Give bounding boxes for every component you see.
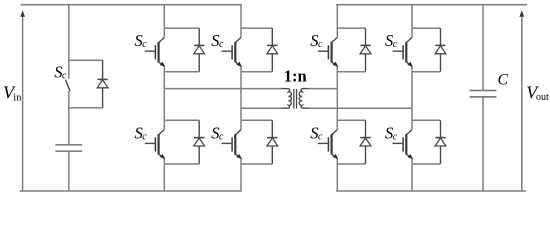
wire: diode loop bottom branch of S4 (input bridge lower-right) — [241, 163, 272, 165]
wire: leg R1 middle: emitter to lower IGBT — [336, 66, 338, 130]
wire: diode loop bottom branch of S6 (output bridge upper-right) — [412, 71, 441, 73]
wire: leg R2 lower: emitter to bottom rail — [411, 158, 413, 191]
wire: switch to input capacitor — [68, 91, 70, 145]
IGBT switch S1 (input bridge upper-left) — [145, 37, 165, 66]
transformer core — [294, 89, 297, 109]
wire: leg R1 upper: top rail to IGBT collector — [336, 5, 338, 38]
diode of S6 (output bridge upper-right) — [435, 28, 446, 72]
wire: primary top lead (leg L1 to transformer) — [164, 88, 282, 90]
wire: diode loop top branch of S7 (output bridge lower-left) — [337, 119, 365, 121]
diode of clamp switch — [97, 60, 108, 108]
Vin measurement arrow — [20, 10, 25, 191]
wire: diode loop top branch of S1 (input bridge upper-left) — [164, 27, 199, 29]
diode of S1 (input bridge upper-left) — [194, 28, 205, 72]
IGBT switch S5 (output bridge upper-left) — [318, 37, 338, 66]
wire: leg L1 upper: top rail to IGBT collector — [163, 5, 165, 38]
wire: diode loop bottom branch of S1 (input bridge upper-left) — [164, 71, 199, 73]
Vout measurement arrow — [519, 10, 524, 191]
wire: primary bottom lead (leg L2 to transformer) — [241, 107, 282, 109]
capacitor (input clamp) — [55, 145, 82, 151]
wire: top rail of output bridge — [336, 4, 527, 6]
wire: leg R2 middle: emitter to lower IGBT — [411, 66, 413, 130]
transformer primary winding — [282, 89, 292, 109]
wire: leg L2 upper: top rail to IGBT collector — [240, 5, 242, 38]
transformer secondary winding — [299, 89, 309, 109]
wire: diode loop top branch of S4 (input bridge lower-right) — [241, 119, 272, 121]
wire: leg R2 upper: top rail to IGBT collector — [411, 5, 413, 38]
wire: diode loop top branch of S5 (output bridge upper-left) — [337, 27, 365, 29]
wire: diode loop bottom branch of S2 (input bridge upper-right) — [241, 71, 272, 73]
wire: diode loop bottom branch of S3 (input bridge lower-left) — [164, 163, 199, 165]
wire: leg L1 lower: emitter to bottom rail — [163, 158, 165, 191]
wire: top rail to output capacitor — [482, 5, 484, 91]
IGBT switch S2 (input bridge upper-right) — [222, 37, 242, 66]
IGBT switch S6 (output bridge upper-right) — [393, 37, 413, 66]
IGBT switch S3 (input bridge lower-left) — [145, 130, 165, 159]
IGBT switch S4 (input bridge lower-right) — [222, 130, 242, 159]
IGBT switch S8 (output bridge lower-right) — [393, 130, 413, 159]
wire: clamp loop bottom branch — [69, 107, 103, 109]
wire: diode loop top branch of S3 (input bridge lower-left) — [164, 119, 199, 121]
svg-text:C: C — [498, 72, 509, 89]
wire: clamp loop top branch — [69, 59, 103, 61]
wire: leg L1 middle: emitter to lower IGBT — [163, 66, 165, 130]
IGBT switch S7 (output bridge lower-left) — [318, 130, 338, 159]
diode of S8 (output bridge lower-right) — [435, 120, 446, 164]
diode of S2 (input bridge upper-right) — [267, 28, 278, 72]
wire: top rail of input bridge — [21, 4, 242, 6]
wire: diode loop bottom branch of S5 (output bridge upper-left) — [337, 71, 365, 73]
wire: bottom rail of input bridge — [20, 190, 242, 192]
wire: secondary bottom lead (transformer to leg R2) — [309, 107, 412, 109]
switch S_c blade (input clamp) — [65, 80, 70, 92]
wire: clamp branch from top rail to switch — [68, 5, 70, 79]
wire: diode loop bottom branch of S8 (output bridge lower-right) — [412, 163, 441, 165]
wire: leg L2 middle: emitter to lower IGBT — [240, 66, 242, 130]
wire: leg L2 lower: emitter to bottom rail — [240, 158, 242, 191]
wire: secondary top lead (transformer to leg R1) — [309, 88, 338, 90]
diode of S4 (input bridge lower-right) — [267, 120, 278, 164]
wire: diode loop top branch of S8 (output bridge lower-right) — [412, 119, 441, 121]
wire: bottom rail of output bridge — [336, 190, 526, 192]
diode of S3 (input bridge lower-left) — [194, 120, 205, 164]
wire: diode loop bottom branch of S7 (output bridge lower-left) — [337, 163, 365, 165]
wire: input capacitor to bottom rail — [68, 151, 70, 191]
svg-text:1:n: 1:n — [284, 67, 307, 86]
diode of S7 (output bridge lower-left) — [360, 120, 371, 164]
wire: diode loop top branch of S6 (output bridge upper-right) — [412, 27, 441, 29]
diode of S5 (output bridge upper-left) — [360, 28, 371, 72]
wire: diode loop top branch of S2 (input bridge upper-right) — [241, 27, 272, 29]
wire: output capacitor to bottom rail — [482, 97, 484, 191]
wire: leg R1 lower: emitter to bottom rail — [336, 158, 338, 191]
capacitor C (output filter) — [470, 91, 497, 97]
